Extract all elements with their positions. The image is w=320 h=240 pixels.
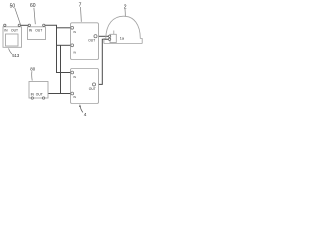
box 80 OUT terminal: [42, 97, 44, 99]
box 60 IN terminal: [28, 24, 30, 26]
svg-text:60: 60: [30, 3, 36, 9]
svg-text:OUT: OUT: [88, 39, 95, 43]
box 50 OUT terminal: [18, 24, 20, 26]
amplifier box A (7): [71, 23, 99, 60]
receiver box 1a: [110, 34, 116, 42]
wire from box 50 OUT to box 60 IN: [19, 24, 29, 26]
amplifier box B (4): [71, 69, 99, 104]
box A lower input circle: [71, 44, 74, 47]
leader 60: [34, 8, 35, 24]
dome right foot: [140, 39, 142, 44]
leader 513: [9, 48, 12, 54]
svg-text:513: 513: [12, 53, 20, 58]
wire branch to box A top input: [57, 27, 73, 29]
receiver port line: [113, 31, 115, 35]
svg-text:80: 80: [30, 67, 35, 72]
leader 80: [31, 71, 33, 80]
box A upper input circle: [71, 26, 74, 29]
svg-text:50: 50: [10, 3, 16, 9]
box A output circle: [94, 35, 97, 38]
earpiece dome 2: [106, 16, 141, 38]
receiver upper terminal: [108, 35, 110, 37]
wire branch to box A lower input: [57, 44, 73, 46]
wire from box 80 OUT to box B lower input: [44, 94, 72, 97]
svg-text:OUT: OUT: [35, 28, 42, 32]
svg-text:IN: IN: [73, 30, 76, 34]
svg-text:OUT: OUT: [11, 28, 18, 32]
box B output circle: [92, 83, 95, 86]
box B upper input circle: [71, 71, 74, 74]
wire from box 60 OUT down bus V1 to amplifier box B upper input: [44, 25, 72, 72]
svg-text:OUT: OUT: [89, 87, 96, 91]
svg-text:7: 7: [79, 2, 82, 8]
dome bottom plate: [104, 43, 142, 45]
box 80: [29, 82, 48, 99]
svg-text:IN: IN: [73, 95, 76, 99]
inner box 513: [6, 34, 19, 46]
leader 50: [15, 8, 21, 24]
arrowhead of leader 4: [79, 104, 81, 107]
box 80 IN terminal: [31, 97, 33, 99]
leader 2: [124, 9, 126, 16]
leader 7: [80, 7, 83, 22]
svg-text:4: 4: [84, 112, 87, 118]
wire bus V2 down to lower horizontal: [60, 45, 62, 93]
box B lower input circle: [71, 92, 74, 95]
box 60 OUT terminal: [43, 24, 45, 26]
svg-text:IN: IN: [73, 51, 76, 55]
svg-text:IN: IN: [73, 75, 76, 79]
box 50: [3, 27, 22, 48]
svg-text:1a: 1a: [120, 36, 125, 40]
box 50 IN terminal: [4, 24, 6, 26]
svg-text:OUT: OUT: [36, 93, 43, 97]
box 60: [28, 27, 46, 40]
leader 4 with arrow to box B: [80, 105, 83, 112]
receiver lower terminal: [108, 38, 110, 40]
wire from box A OUT to receiver box: [96, 35, 109, 37]
dome left foot: [104, 39, 106, 44]
wire from box B OUT up to receiver box: [95, 39, 109, 84]
